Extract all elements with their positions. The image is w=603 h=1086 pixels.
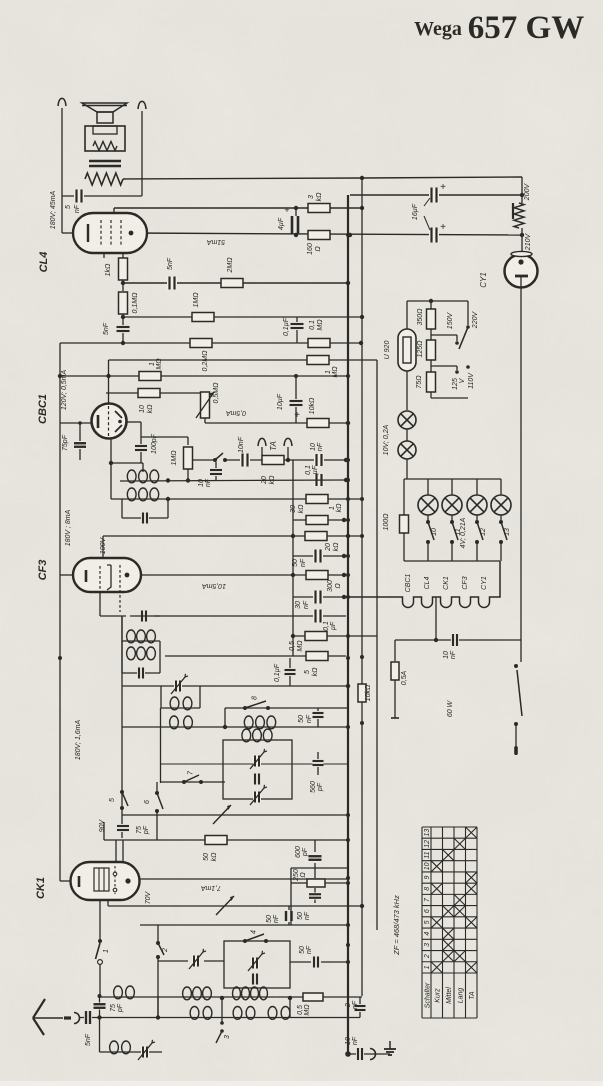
svg-text:30: 30 bbox=[295, 601, 302, 609]
svg-text:30: 30 bbox=[290, 505, 297, 513]
svg-text:MΩ: MΩ bbox=[297, 640, 304, 652]
svg-text:CK1: CK1 bbox=[35, 877, 47, 899]
svg-text:nF: nF bbox=[306, 714, 313, 723]
svg-text:nF: nF bbox=[352, 1000, 359, 1009]
svg-text:0,5: 0,5 bbox=[289, 641, 296, 651]
svg-text:10kΩ: 10kΩ bbox=[309, 397, 316, 414]
svg-text:50: 50 bbox=[203, 853, 210, 861]
svg-text:CBC1: CBC1 bbox=[37, 394, 49, 424]
svg-text:0,5mA: 0,5mA bbox=[226, 409, 247, 416]
svg-text:CL4: CL4 bbox=[38, 252, 50, 273]
svg-text:pF: pF bbox=[143, 825, 150, 835]
svg-text:11: 11 bbox=[424, 851, 431, 858]
svg-text:+: + bbox=[294, 410, 300, 421]
svg-text:50: 50 bbox=[299, 946, 306, 954]
svg-text:nF: nF bbox=[450, 650, 457, 659]
svg-text:150V: 150V bbox=[447, 312, 454, 330]
svg-text:180V; 1,6mA: 180V; 1,6mA bbox=[75, 719, 82, 760]
svg-text:Kurz: Kurz bbox=[435, 988, 442, 1003]
svg-text:75: 75 bbox=[110, 1004, 117, 1012]
svg-text:50: 50 bbox=[292, 559, 299, 567]
svg-text:MΩ: MΩ bbox=[156, 358, 163, 370]
svg-text:+: + bbox=[440, 222, 446, 233]
svg-text:MΩ: MΩ bbox=[317, 319, 324, 331]
svg-text:nF: nF bbox=[205, 478, 212, 487]
svg-text:Wega: Wega bbox=[414, 18, 462, 40]
svg-text:180V; 45mA: 180V; 45mA bbox=[50, 190, 57, 229]
svg-text:0,1µF: 0,1µF bbox=[283, 317, 290, 336]
svg-text:50: 50 bbox=[266, 915, 273, 923]
svg-text:4: 4 bbox=[424, 932, 431, 936]
svg-text:560: 560 bbox=[310, 781, 317, 793]
svg-text:nF: nF bbox=[303, 600, 310, 609]
svg-text:µF: µF bbox=[310, 465, 319, 474]
svg-text:100V: 100V bbox=[100, 537, 107, 555]
svg-text:110V: 110V bbox=[468, 372, 475, 389]
svg-text:16µF: 16µF bbox=[412, 203, 419, 220]
svg-text:Ω: Ω bbox=[300, 872, 307, 878]
svg-text:5: 5 bbox=[304, 670, 311, 674]
svg-text:nF: nF bbox=[306, 945, 313, 954]
svg-text:0,1: 0,1 bbox=[309, 320, 316, 330]
svg-text:50: 50 bbox=[297, 912, 304, 920]
svg-text:60 W: 60 W bbox=[447, 699, 454, 717]
svg-text:210V: 210V bbox=[525, 233, 532, 252]
svg-text:CBC1: CBC1 bbox=[405, 574, 412, 593]
svg-text:kΩ: kΩ bbox=[333, 542, 340, 552]
svg-text:Lang: Lang bbox=[458, 988, 465, 1004]
svg-text:1: 1 bbox=[103, 949, 110, 953]
svg-text:Schalter: Schalter bbox=[424, 982, 431, 1008]
svg-text:1: 1 bbox=[424, 965, 431, 969]
svg-text:3: 3 bbox=[308, 195, 315, 199]
svg-text:75Ω: 75Ω bbox=[416, 375, 423, 389]
svg-text:180V ; 8mA: 180V ; 8mA bbox=[65, 509, 72, 546]
svg-text:kΩ: kΩ bbox=[147, 404, 154, 414]
svg-text:51mA: 51mA bbox=[207, 238, 226, 245]
svg-text:90V: 90V bbox=[99, 818, 106, 832]
svg-text:5nF: 5nF bbox=[85, 1033, 92, 1046]
svg-text:2: 2 bbox=[162, 948, 169, 953]
svg-text:0,5A: 0,5A bbox=[401, 670, 408, 685]
svg-text:+: + bbox=[440, 182, 446, 193]
svg-text:pF: pF bbox=[317, 782, 324, 792]
svg-text:0,1: 0,1 bbox=[323, 621, 330, 631]
svg-text:CY1: CY1 bbox=[481, 576, 488, 590]
svg-text:10: 10 bbox=[139, 405, 146, 413]
svg-text:nF: nF bbox=[315, 442, 324, 451]
svg-text:9: 9 bbox=[424, 875, 431, 879]
svg-text:10kΩ: 10kΩ bbox=[365, 684, 372, 701]
svg-text:10: 10 bbox=[431, 528, 438, 536]
svg-text:pF: pF bbox=[117, 1003, 124, 1013]
svg-text:nF: nF bbox=[304, 911, 311, 920]
svg-text:1: 1 bbox=[329, 506, 336, 510]
svg-text:CY1: CY1 bbox=[479, 272, 488, 288]
svg-text:657 GW: 657 GW bbox=[468, 10, 584, 46]
svg-text:5: 5 bbox=[424, 920, 431, 924]
svg-text:160: 160 bbox=[307, 243, 314, 255]
svg-text:10: 10 bbox=[443, 651, 450, 659]
svg-text:Mittel: Mittel bbox=[446, 987, 453, 1004]
svg-text:2: 2 bbox=[424, 954, 431, 959]
svg-text:70V: 70V bbox=[145, 890, 152, 904]
svg-text:0,5: 0,5 bbox=[297, 1005, 304, 1015]
svg-text:0,5MΩ: 0,5MΩ bbox=[213, 382, 220, 404]
svg-text:nF: nF bbox=[300, 558, 307, 567]
svg-text:4V; 0,21A: 4V; 0,21A bbox=[460, 517, 467, 548]
svg-text:200V: 200V bbox=[524, 183, 531, 202]
svg-text:+: + bbox=[284, 205, 289, 215]
svg-text:7,1mA: 7,1mA bbox=[201, 884, 222, 891]
svg-text:10nF: 10nF bbox=[238, 436, 245, 453]
svg-text:TA: TA bbox=[269, 441, 278, 451]
svg-text:250: 250 bbox=[293, 869, 300, 882]
svg-text:kΩ: kΩ bbox=[298, 504, 305, 514]
svg-text:3: 3 bbox=[424, 943, 431, 947]
svg-text:0,1MΩ: 0,1MΩ bbox=[132, 292, 139, 314]
svg-text:13: 13 bbox=[504, 528, 511, 536]
svg-text:6: 6 bbox=[144, 800, 151, 804]
svg-text:0,1µF: 0,1µF bbox=[274, 663, 281, 682]
svg-text:20: 20 bbox=[325, 543, 332, 552]
svg-text:5: 5 bbox=[65, 205, 72, 209]
svg-text:1: 1 bbox=[149, 362, 156, 366]
svg-text:1MΩ: 1MΩ bbox=[171, 450, 178, 466]
svg-text:10,5mA: 10,5mA bbox=[202, 582, 226, 589]
svg-text:12: 12 bbox=[480, 528, 487, 536]
svg-text:CF3: CF3 bbox=[462, 576, 469, 589]
svg-text:220V: 220V bbox=[472, 311, 479, 330]
svg-text:75: 75 bbox=[136, 826, 143, 834]
svg-text:Ω: Ω bbox=[335, 583, 342, 589]
svg-text:4µF: 4µF bbox=[278, 217, 285, 230]
svg-text:nF: nF bbox=[273, 914, 280, 923]
svg-text:300: 300 bbox=[327, 580, 334, 592]
svg-text:3: 3 bbox=[224, 1035, 231, 1039]
svg-text:8: 8 bbox=[424, 887, 431, 891]
svg-text:U 920: U 920 bbox=[384, 341, 391, 360]
svg-text:nF: nF bbox=[352, 1036, 359, 1045]
svg-text:CF3: CF3 bbox=[37, 560, 49, 581]
svg-text:12: 12 bbox=[424, 840, 431, 848]
svg-text:10: 10 bbox=[424, 862, 431, 870]
svg-text:13: 13 bbox=[424, 829, 431, 837]
svg-text:4: 4 bbox=[251, 930, 258, 934]
svg-text:5nF: 5nF bbox=[103, 322, 110, 335]
svg-text:kΩ: kΩ bbox=[211, 852, 218, 862]
svg-text:125Ω: 125Ω bbox=[417, 340, 424, 358]
svg-text:75pF: 75pF bbox=[62, 434, 69, 451]
svg-text:ZF = 468/473 kHz: ZF = 468/473 kHz bbox=[392, 895, 401, 956]
svg-text:10µF: 10µF bbox=[277, 393, 284, 410]
svg-text:6: 6 bbox=[424, 909, 431, 913]
svg-text:1: 1 bbox=[325, 370, 332, 374]
svg-text:nF: nF bbox=[74, 204, 81, 213]
svg-text:CK1: CK1 bbox=[443, 576, 450, 590]
svg-text:µF: µF bbox=[330, 621, 337, 630]
svg-text:kΩ: kΩ bbox=[316, 192, 323, 202]
svg-text:5nF: 5nF bbox=[167, 257, 174, 270]
svg-text:350Ω: 350Ω bbox=[417, 308, 424, 326]
svg-text:600: 600 bbox=[295, 846, 302, 858]
svg-text:8: 8 bbox=[252, 696, 259, 700]
svg-text:10V; 0,2A: 10V; 0,2A bbox=[383, 424, 390, 455]
svg-text:Ω: Ω bbox=[315, 246, 322, 252]
svg-text:pF: pF bbox=[302, 847, 309, 857]
svg-text:0,2MΩ: 0,2MΩ bbox=[202, 350, 209, 372]
svg-text:CL4: CL4 bbox=[424, 576, 431, 589]
svg-text:2MΩ: 2MΩ bbox=[227, 257, 234, 274]
svg-text:MΩ: MΩ bbox=[304, 1004, 311, 1016]
svg-text:125: 125 bbox=[452, 378, 459, 390]
svg-text:TA: TA bbox=[469, 991, 476, 1000]
svg-text:1MΩ: 1MΩ bbox=[193, 292, 200, 308]
svg-text:5: 5 bbox=[109, 798, 116, 802]
svg-text:kΩ: kΩ bbox=[269, 475, 276, 485]
svg-text:kΩ: kΩ bbox=[336, 503, 343, 513]
svg-text:100Ω: 100Ω bbox=[383, 513, 390, 531]
svg-text:1kΩ: 1kΩ bbox=[105, 263, 112, 276]
svg-text:kΩ: kΩ bbox=[312, 667, 319, 677]
svg-text:50: 50 bbox=[298, 715, 305, 723]
